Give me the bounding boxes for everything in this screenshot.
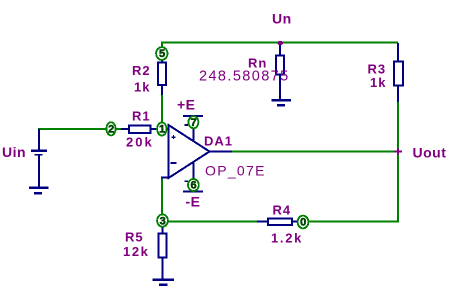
- svg-text:1k: 1k: [134, 80, 150, 95]
- svg-text:1.2k: 1.2k: [271, 231, 303, 246]
- svg-text:12k: 12k: [123, 244, 150, 259]
- svg-text:R5: R5: [125, 230, 144, 245]
- svg-text:DA1: DA1: [204, 134, 233, 149]
- svg-text:R4: R4: [273, 203, 292, 218]
- svg-text:3: 3: [160, 215, 166, 227]
- svg-text:1k: 1k: [370, 75, 386, 90]
- svg-text:R2: R2: [132, 63, 151, 78]
- svg-text:7: 7: [191, 117, 197, 129]
- svg-text:OP_07E: OP_07E: [205, 163, 266, 179]
- svg-text:Un: Un: [272, 11, 292, 27]
- svg-text:R1: R1: [132, 109, 151, 124]
- svg-text:1: 1: [159, 124, 165, 136]
- svg-text:5: 5: [159, 48, 165, 60]
- svg-text:2: 2: [108, 124, 114, 136]
- svg-text:0: 0: [300, 217, 306, 229]
- svg-text:6: 6: [191, 180, 197, 192]
- svg-text:Uout: Uout: [413, 145, 447, 161]
- svg-text:20k: 20k: [126, 135, 154, 150]
- svg-text:-E: -E: [186, 194, 201, 210]
- svg-text:248.580875: 248.580875: [199, 69, 290, 85]
- svg-text:+E: +E: [177, 97, 196, 113]
- svg-text:Uin: Uin: [2, 144, 26, 160]
